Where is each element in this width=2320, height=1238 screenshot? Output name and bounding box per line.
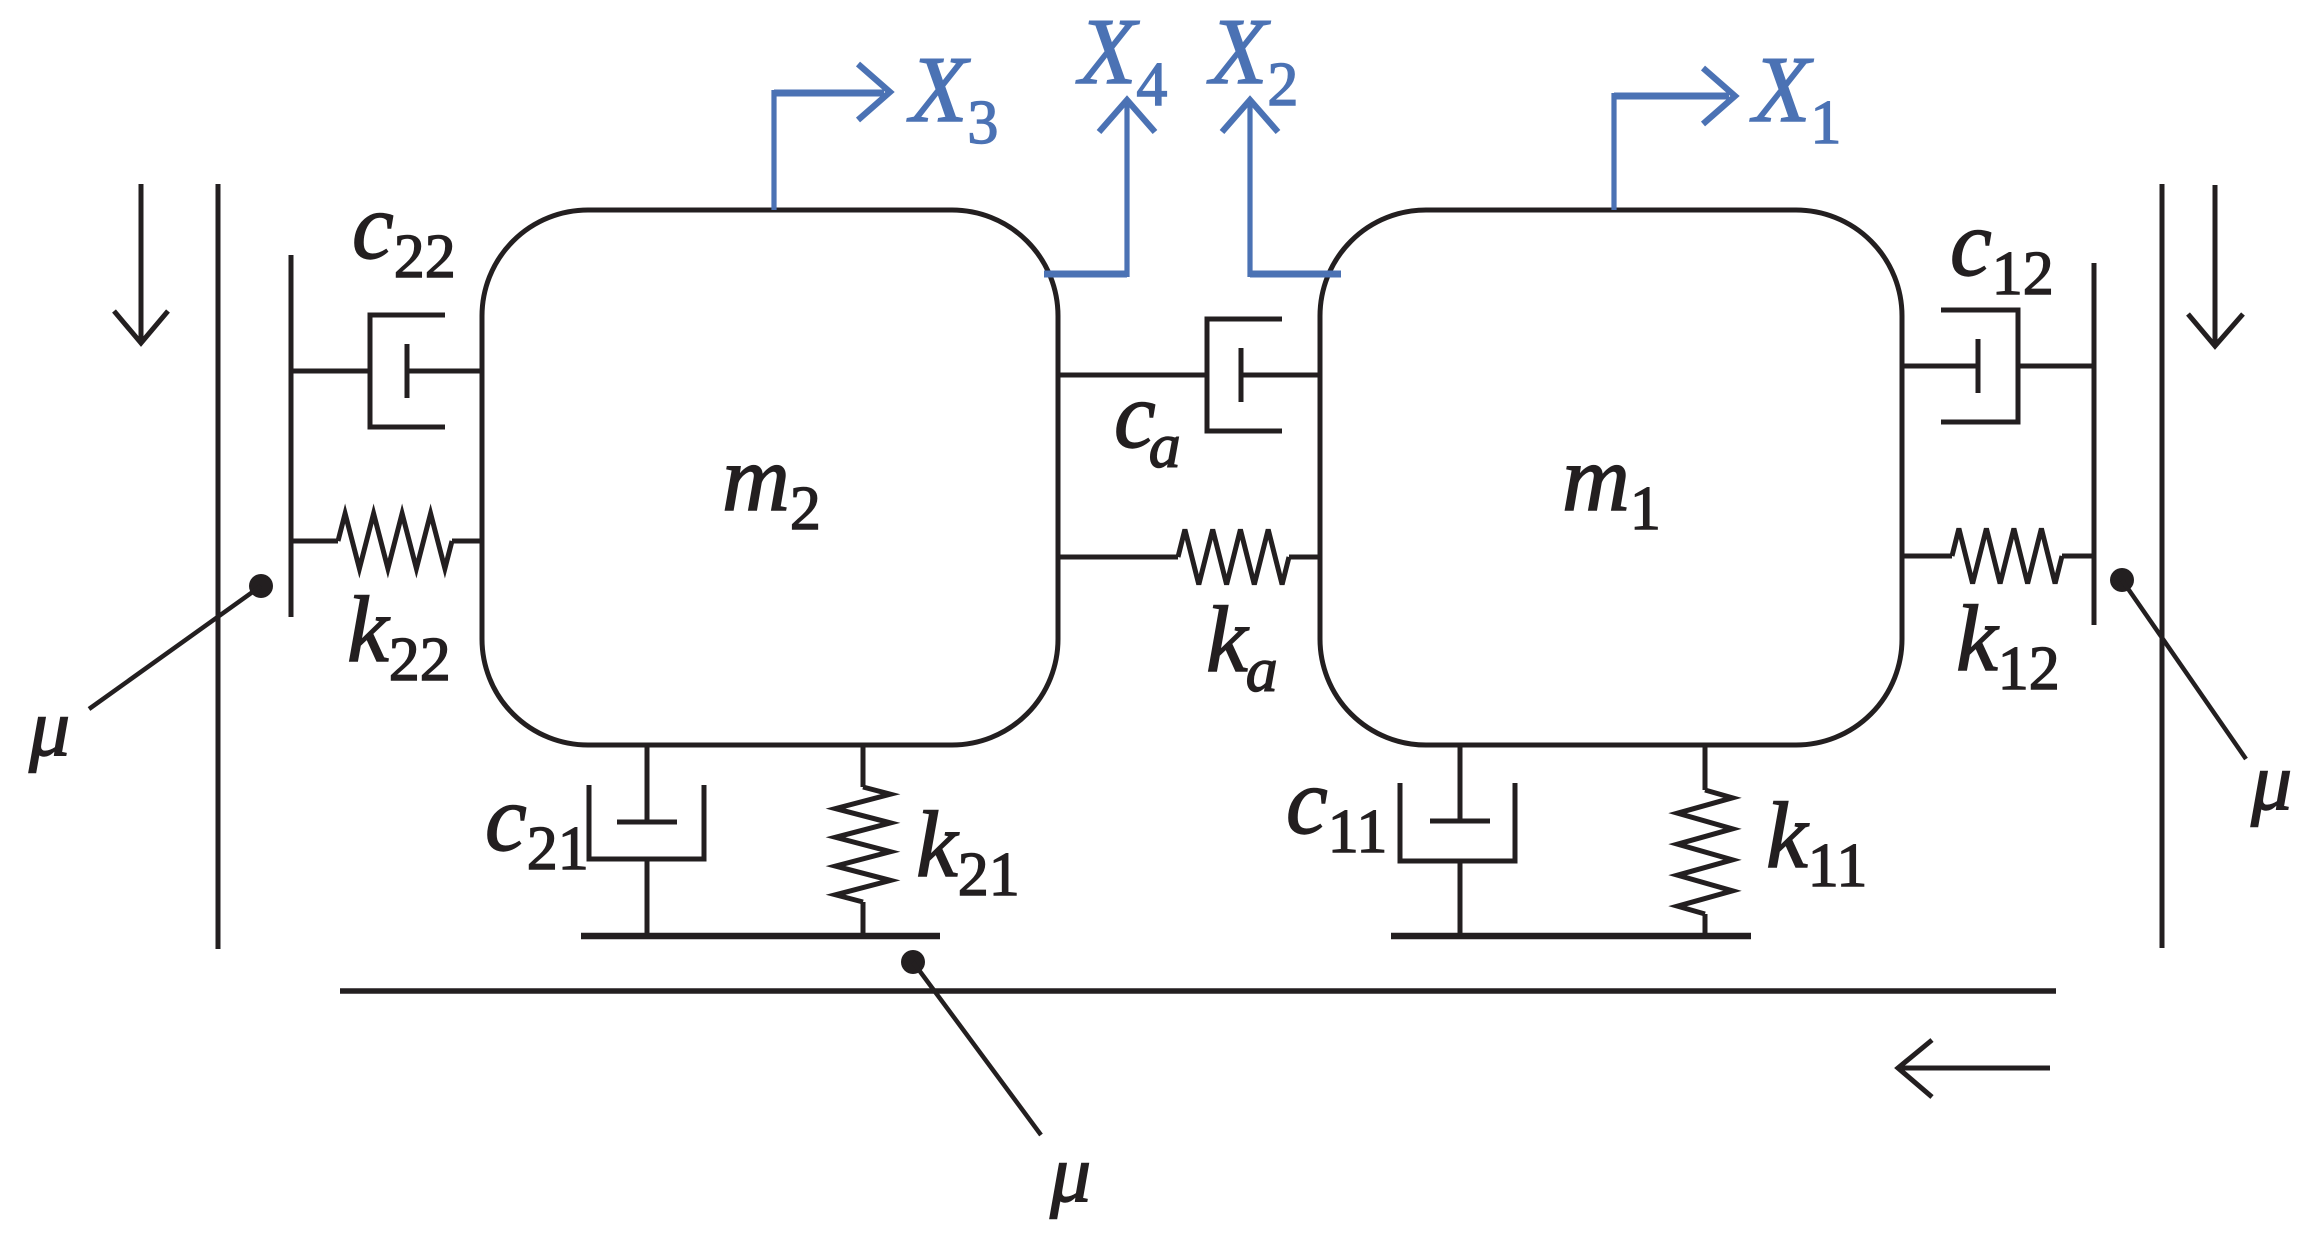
svg-text:μ: μ	[1049, 1128, 1091, 1219]
svg-text:μ: μ	[2250, 736, 2292, 827]
svg-text:μ: μ	[28, 682, 70, 773]
